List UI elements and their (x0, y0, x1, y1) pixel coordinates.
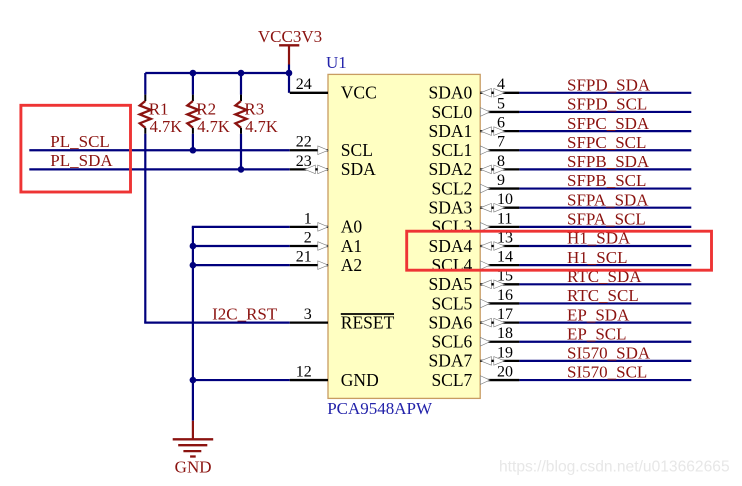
power symbol VCC3V3 (258, 27, 322, 65)
svg-text:1: 1 (304, 210, 312, 227)
wire net RTC_SDA (519, 283, 691, 285)
svg-text:SCL1: SCL1 (431, 140, 472, 160)
wire net RTC_SCL (519, 302, 691, 304)
svg-text:SCL7: SCL7 (431, 370, 472, 390)
svg-text:R2: R2 (196, 100, 216, 119)
svg-text:SDA: SDA (341, 159, 376, 179)
pin 11 SCL3 (431, 210, 519, 236)
svg-text:SCL0: SCL0 (431, 102, 472, 122)
svg-text:GND: GND (341, 370, 379, 390)
pin 21 A2 (290, 249, 362, 275)
svg-text:A0: A0 (341, 217, 363, 237)
wire net SI570_SCL (519, 379, 691, 381)
node junction top R2 (190, 70, 197, 77)
wire net H1_SDA (519, 245, 691, 247)
svg-text:A1: A1 (341, 236, 362, 256)
pin 7 SCL1 (431, 134, 519, 160)
wire top VCC bus (145, 72, 289, 74)
wire A-column (192, 227, 290, 421)
pin 22 SCL (290, 134, 373, 160)
svg-text:11: 11 (497, 210, 512, 227)
IC U1 body (328, 74, 480, 398)
wire R2 drop (192, 134, 194, 150)
pin 1 A0 (290, 210, 363, 236)
wire net SFPD_SCL (519, 111, 691, 113)
node junction top R3 (238, 70, 245, 77)
svg-text:PL_SCL: PL_SCL (50, 132, 110, 151)
pin 20 SCL7 (431, 363, 519, 389)
svg-text:22: 22 (296, 134, 312, 151)
svg-text:SDA4: SDA4 (429, 236, 473, 256)
svg-text:4.7K: 4.7K (150, 117, 183, 136)
svg-text:PCA9548APW: PCA9548APW (327, 399, 433, 418)
svg-text:SCL5: SCL5 (431, 293, 472, 313)
resistor R3 4.7K (235, 73, 278, 136)
pin 10 SDA3 (429, 191, 520, 217)
svg-text:A2: A2 (341, 255, 362, 275)
highlight box PL signals (21, 105, 131, 192)
wire A2 branch (193, 264, 290, 266)
ground GND (173, 421, 214, 477)
svg-text:16: 16 (497, 287, 513, 304)
pin 5 SCL0 (431, 95, 519, 121)
pin 23 SDA (290, 153, 376, 179)
pin 18 SCL6 (431, 325, 519, 351)
pin 13 SDA4 (429, 229, 520, 255)
pin 6 SDA1 (429, 115, 520, 141)
svg-text:SI570_SDA: SI570_SDA (567, 344, 651, 363)
svg-text:SCL4: SCL4 (431, 255, 472, 275)
wire PL_SDA (29, 168, 290, 170)
svg-text:SFPB_SDA: SFPB_SDA (567, 152, 650, 171)
svg-text:VCC: VCC (341, 83, 377, 103)
pin 24 VCC (290, 76, 377, 102)
node junction GND (190, 377, 197, 384)
pin 14 SCL4 (431, 249, 519, 275)
wire net EP_SDA (519, 322, 691, 324)
svg-text:18: 18 (497, 325, 513, 342)
svg-text:SFPD_SDA: SFPD_SDA (567, 75, 651, 94)
pin 2 A1 (290, 229, 362, 255)
highlight box H1 signals (407, 231, 712, 270)
wire net SI570_SDA (519, 360, 691, 362)
pin 3 RESET (290, 306, 395, 332)
svg-text:SCL: SCL (341, 140, 373, 160)
wire GND branch (193, 379, 290, 381)
node junction A1 (190, 243, 197, 250)
svg-text:SFPC_SCL: SFPC_SCL (567, 133, 646, 152)
svg-text:R3: R3 (244, 100, 264, 119)
pin 4 SDA0 (429, 76, 520, 102)
svg-text:EP_SCL: EP_SCL (567, 324, 627, 343)
svg-text:SFPA_SDA: SFPA_SDA (567, 190, 649, 209)
svg-text:24: 24 (296, 76, 312, 93)
svg-text:SDA6: SDA6 (429, 312, 473, 332)
svg-text:14: 14 (497, 249, 513, 266)
resistor R2 4.7K (187, 73, 230, 136)
wire R1 drop to I2C_RST (144, 134, 290, 323)
wire A1 branch (193, 245, 290, 247)
svg-text:5: 5 (497, 95, 505, 112)
wire PL_SCL (29, 149, 290, 151)
pin 8 SDA2 (429, 153, 520, 179)
svg-text:SDA3: SDA3 (429, 198, 473, 218)
svg-text:U1: U1 (326, 53, 347, 72)
wire R3 drop (240, 134, 242, 170)
svg-text:SFPC_SDA: SFPC_SDA (567, 114, 650, 133)
node junction R3-SDA (238, 166, 245, 173)
svg-text:2: 2 (304, 229, 312, 246)
wire net H1_SCL (519, 264, 691, 266)
svg-text:SDA7: SDA7 (429, 351, 473, 371)
wire VCC to pin24 (288, 73, 290, 93)
svg-text:20: 20 (497, 363, 513, 380)
svg-text:RESET: RESET (341, 312, 395, 332)
svg-text:SFPA_SCL: SFPA_SCL (567, 210, 646, 229)
pin 9 SCL2 (431, 172, 519, 198)
svg-text:VCC3V3: VCC3V3 (258, 27, 322, 46)
svg-text:RTC_SCL: RTC_SCL (567, 286, 639, 305)
wire net SFPC_SDA (519, 130, 691, 132)
svg-text:9: 9 (497, 172, 505, 189)
svg-text:PL_SDA: PL_SDA (50, 151, 113, 170)
wire net SFPD_SDA (519, 92, 691, 94)
svg-text:I2C_RST: I2C_RST (212, 304, 278, 323)
svg-text:4.7K: 4.7K (197, 117, 230, 136)
pin 15 SDA5 (429, 268, 520, 294)
svg-text:SFPD_SCL: SFPD_SCL (567, 95, 647, 114)
svg-text:4.7K: 4.7K (245, 117, 278, 136)
svg-text:SFPB_SCL: SFPB_SCL (567, 171, 646, 190)
wire net SFPA_SDA (519, 207, 691, 209)
wire net SFPC_SCL (519, 149, 691, 151)
svg-text:H1_SCL: H1_SCL (567, 248, 627, 267)
svg-text:SCL2: SCL2 (431, 178, 472, 198)
node junction A2 (190, 262, 197, 269)
svg-text:SCL3: SCL3 (431, 217, 472, 237)
pin 19 SDA7 (429, 344, 520, 370)
svg-text:7: 7 (497, 134, 505, 151)
svg-text:https://blog.csdn.net/u0136626: https://blog.csdn.net/u013662665 (499, 459, 730, 476)
svg-text:SI570_SCL: SI570_SCL (567, 363, 647, 382)
svg-text:SDA5: SDA5 (429, 274, 473, 294)
node junction top VCC (286, 70, 293, 77)
svg-text:SDA2: SDA2 (429, 159, 473, 179)
svg-text:SCL6: SCL6 (431, 332, 472, 352)
pin 12 GND (290, 363, 379, 389)
svg-text:12: 12 (296, 363, 312, 380)
pin 17 SDA6 (429, 306, 520, 332)
pin 16 SCL5 (431, 287, 519, 313)
svg-text:SDA0: SDA0 (429, 83, 473, 103)
svg-text:EP_SDA: EP_SDA (567, 305, 630, 324)
wire net SFPB_SDA (519, 168, 691, 170)
svg-text:SDA1: SDA1 (429, 121, 473, 141)
node junction R2-SCL (190, 147, 197, 154)
svg-text:GND: GND (175, 457, 212, 476)
svg-text:R1: R1 (149, 100, 169, 119)
resistor R1 4.7K (140, 73, 183, 136)
wire net SFPB_SCL (519, 187, 691, 189)
wire VCC3V3 stub (288, 65, 290, 75)
wire net SFPA_SCL (519, 226, 691, 228)
svg-text:3: 3 (304, 306, 312, 323)
wire net EP_SCL (519, 341, 691, 343)
svg-text:21: 21 (296, 249, 312, 266)
